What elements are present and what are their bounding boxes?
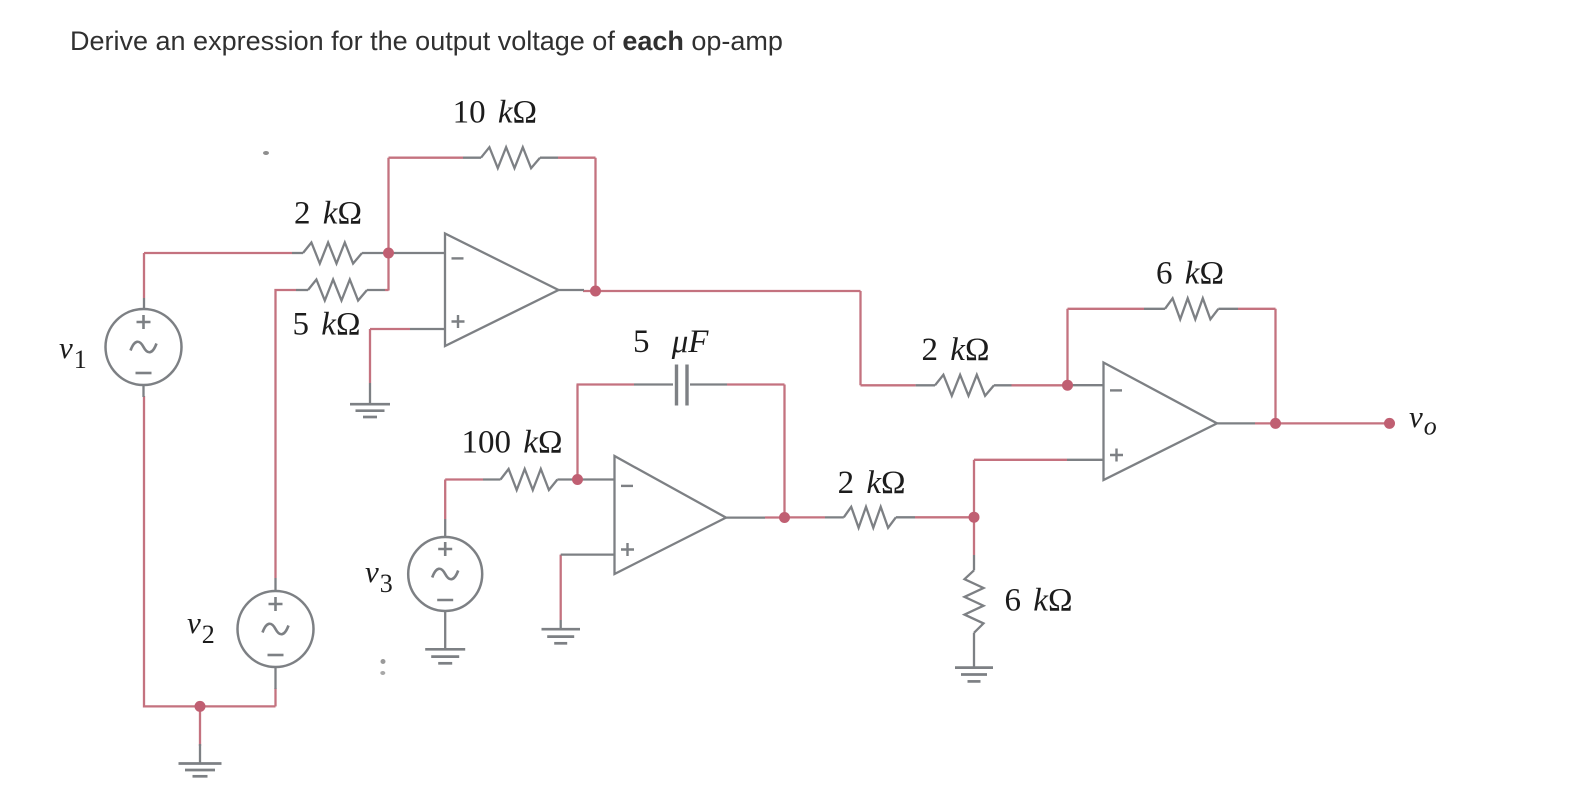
svg-text:2 kΩ: 2 kΩ: [922, 332, 990, 368]
svg-text:6 kΩ: 6 kΩ: [1005, 583, 1073, 619]
svg-text:2 kΩ: 2 kΩ: [838, 465, 906, 501]
svg-text:6 kΩ: 6 kΩ: [1156, 256, 1224, 292]
svg-text:100 kΩ: 100 kΩ: [462, 425, 563, 461]
svg-text:5 kΩ: 5 kΩ: [293, 307, 361, 343]
svg-text:2 kΩ: 2 kΩ: [294, 196, 362, 232]
svg-text:5 μF: 5 μF: [633, 324, 709, 360]
